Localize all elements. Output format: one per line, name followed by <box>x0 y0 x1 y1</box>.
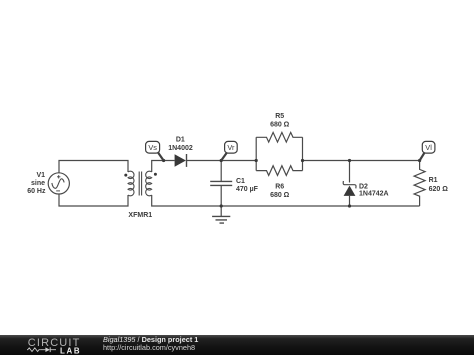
svg-text:D1: D1 <box>176 137 185 144</box>
svg-text:V1: V1 <box>36 172 45 179</box>
svg-text:sine: sine <box>31 180 45 187</box>
svg-text:R6: R6 <box>275 184 284 191</box>
svg-text:Vr: Vr <box>227 143 235 152</box>
svg-text:470 µF: 470 µF <box>236 186 259 193</box>
svg-text:Vs: Vs <box>148 143 157 152</box>
svg-text:1N4742A: 1N4742A <box>359 191 389 198</box>
svg-text:680 Ω: 680 Ω <box>270 192 290 199</box>
svg-text:680 Ω: 680 Ω <box>270 122 290 129</box>
svg-text:R5: R5 <box>275 113 284 120</box>
svg-text:D2: D2 <box>359 184 368 191</box>
svg-text:R1: R1 <box>429 177 438 184</box>
svg-text:Vl: Vl <box>425 143 432 152</box>
svg-text:1N4002: 1N4002 <box>168 145 193 152</box>
svg-text:XFMR1: XFMR1 <box>128 212 152 219</box>
svg-text:60 Hz: 60 Hz <box>27 188 46 195</box>
svg-text:C1: C1 <box>236 178 245 185</box>
svg-text:620 Ω: 620 Ω <box>429 186 449 193</box>
svg-text:LAB: LAB <box>60 347 81 355</box>
